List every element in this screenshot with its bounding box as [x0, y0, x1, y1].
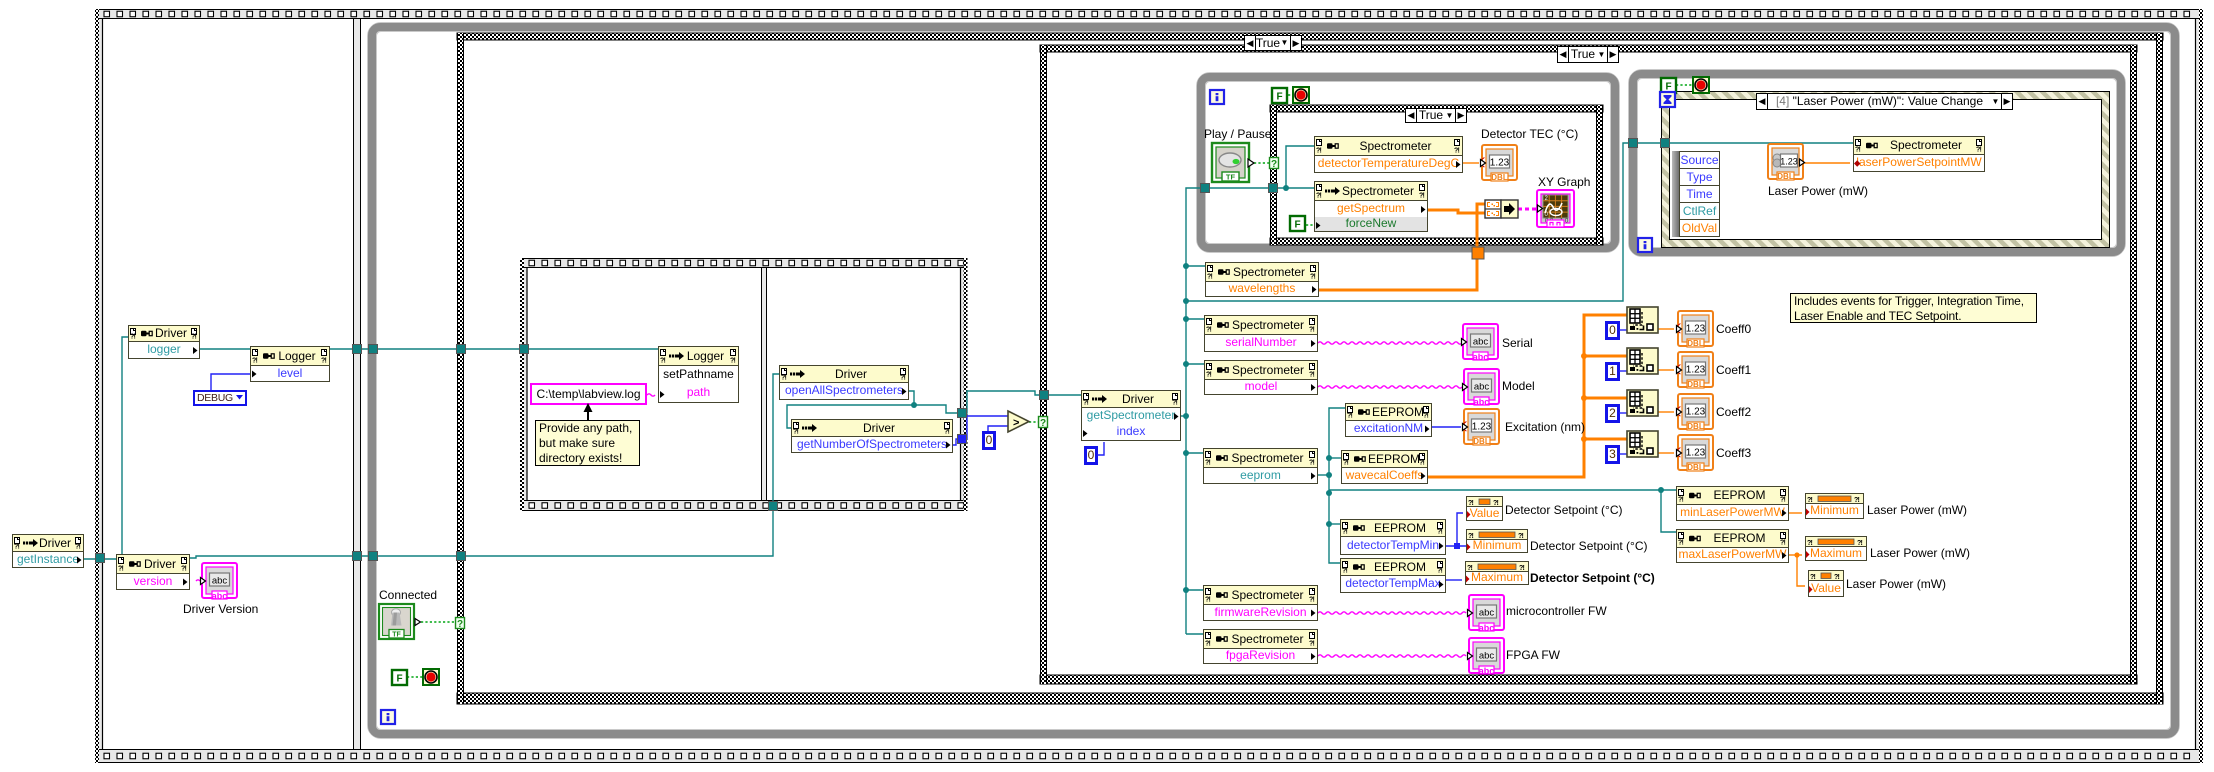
wire: array branch to Index Array 2: [1584, 397, 1627, 400]
wire: detectorTempMax to Maximum: [1446, 579, 1462, 581]
label Laser Power min: [1867, 503, 1967, 517]
wire: zero constant to greater-than: [988, 426, 1008, 431]
svg-text:DBL: DBL: [1687, 380, 1704, 389]
wire: index 3 constant to Index Array: [1619, 453, 1627, 455]
wire: count to greater-than: [966, 416, 1008, 439]
iteration terminal (acquire loop): [1210, 90, 1224, 104]
wire: Driver ref branch to tunnel: [914, 405, 962, 413]
svg-text:abc: abc: [1479, 666, 1495, 676]
wire: EEPROM ref to detectorTempMax: [1329, 475, 1340, 563]
case 2 selector label: [1557, 46, 1619, 63]
wire: serialNumber string to Serial: [1318, 342, 1462, 344]
iteration terminal (main loop): [381, 710, 395, 724]
label Detector TEC: [1481, 127, 1578, 141]
slider property: Laser Power Value (icons): [1809, 573, 1839, 593]
svg-text:1.23: 1.23: [1780, 157, 1798, 167]
property node: Spectrometer.firmwareRevision: [1203, 585, 1318, 621]
property node: EEPROM.wavecalCoeffs: [1341, 450, 1428, 484]
wire: EEPROM ref to maxLaserPowerMW: [1661, 490, 1676, 532]
svg-text:0.0: 0.0: [1545, 219, 1554, 225]
numeric indicator Coeff3: [1677, 435, 1714, 472]
label Coeff1: [1716, 363, 1751, 377]
case 2 selector terminal: [1039, 417, 1048, 430]
XY Graph indicator: [1537, 190, 1574, 227]
slider property: Laser Power Maximum: [1805, 536, 1867, 561]
wire: Spectrometer ref into acquire loop: [1209, 187, 1286, 189]
tunnel: Logger ref through divider: [353, 345, 362, 354]
wire junctions (orange): [1581, 353, 1800, 558]
label Laser Power value: [1846, 577, 1946, 591]
property node: Spectrometer.firmwareRevision (icons): [1205, 589, 1211, 604]
numeric constant 0 (compare): [982, 431, 996, 450]
case structure 2 (found True) top border: [1040, 45, 2137, 52]
case 1 selector terminal: [456, 618, 465, 631]
property node: Spectrometer.fpgaRevision (icons): [1205, 633, 1211, 648]
invoke node: Driver.getSpectrometer (icons): [1083, 394, 1089, 407]
svg-text:1.23: 1.23: [1686, 365, 1706, 376]
invoke node: Driver getInstance: [12, 534, 84, 568]
invoke node: Driver.getNumberOfSpectrometers (icons): [793, 423, 799, 436]
case structure 1 (connected True) left border: [458, 33, 464, 704]
wire: Spectrometer ref output: [1181, 415, 1186, 417]
inner sequence frame divider: [762, 268, 767, 500]
invoke node: Spectrometer.getSpectrum: [1314, 181, 1428, 232]
case 3 selector terminal: [1270, 158, 1279, 171]
greater-than function: [1008, 411, 1029, 432]
property node: Spectrometer.eeprom: [1203, 448, 1318, 484]
property node: Driver.logger: [128, 325, 200, 359]
Connected toggle control: [379, 604, 421, 639]
string indicator Model: [1463, 369, 1500, 407]
invoke node: Driver.getNumberOfSpectrometers: [791, 419, 953, 453]
svg-text:abc: abc: [1479, 608, 1495, 619]
property node: detectorTemperatureDegC (icons): [1316, 140, 1322, 155]
tunnel: Driver ref into loop: [369, 552, 378, 561]
Index Array function 3: [1627, 431, 1658, 457]
wire: ref to eeprom node: [1186, 452, 1203, 454]
wire: Index Array 0 to Coeff0 indicator: [1658, 328, 1674, 330]
property node: EEPROM.minLaserPowerMW (icons): [1678, 490, 1684, 504]
label Laser Power max: [1870, 546, 1970, 560]
slider property: Detector Setpoint Maximum: [1465, 561, 1529, 585]
iteration terminal (event loop): [1638, 238, 1652, 252]
wire: detector temperature to indicator: [1463, 162, 1479, 164]
svg-text:1.23: 1.23: [1686, 407, 1706, 418]
boolean F constant forceNew: [1290, 216, 1305, 231]
wire: ref to serialNumber node: [1186, 318, 1204, 320]
wire: EEPROM ref to wavecalCoeffs: [1329, 457, 1341, 459]
invoke node: Logger.setPathname (icons): [660, 350, 666, 365]
wire junctions (teal): [911, 185, 1664, 593]
Play/Pause toggle control: [1212, 143, 1254, 182]
wire: Driver ref to openAllSpectrometers: [190, 374, 779, 558]
inner sequence bottom border (film strip): [520, 501, 967, 511]
svg-text:TF: TF: [392, 632, 401, 639]
case 3 selector label: [1405, 108, 1467, 123]
wire: greater-than to case selector: [1029, 421, 1040, 423]
flat sequence left border: [95, 9, 99, 763]
inner sequence top border (film strip): [520, 259, 967, 268]
numeric indicator Coeff2: [1677, 394, 1714, 431]
slider property: Detector Setpoint Minimum: [1466, 529, 1528, 553]
svg-text:0: 0: [1545, 212, 1549, 218]
wire: Play/Pause to case selector: [1254, 162, 1270, 164]
svg-text:F: F: [1665, 82, 1671, 93]
case structure 1 (connected True) right border: [2157, 33, 2163, 704]
case structure 3 (play True) left border: [1271, 105, 1277, 245]
case 1 selector label: [1244, 35, 1302, 51]
wire: Logger ref to level node: [200, 348, 250, 350]
label Coeff0: [1716, 322, 1751, 336]
svg-text:?: ?: [1271, 159, 1277, 170]
wire: F to stop (event loop): [1676, 84, 1693, 86]
svg-text:DBL: DBL: [1687, 463, 1704, 472]
inner sequence left border: [520, 258, 524, 511]
svg-text:abc: abc: [1473, 337, 1489, 348]
svg-text:1.23: 1.23: [1686, 448, 1706, 459]
wire: ref to laserPowerSetpointMW: [1638, 142, 1853, 144]
svg-text:?: ?: [457, 619, 463, 630]
numeric constant 0: [1605, 321, 1620, 340]
wire: F to forceNew: [1306, 224, 1314, 226]
invoke node: Spectrometer.getSpectrum (icons): [1316, 185, 1322, 200]
svg-text:2: 2: [1545, 196, 1549, 202]
slider property: Detector Setpoint Value (icons): [1467, 499, 1498, 518]
svg-text:abc: abc: [1479, 651, 1495, 662]
Index Array function 1: [1627, 348, 1658, 374]
svg-text:DBL: DBL: [1473, 437, 1490, 446]
case structure 3 (play True) bottom border: [1270, 238, 1603, 245]
property node: EEPROM.excitationNM (icons): [1347, 407, 1353, 420]
case structure 2 (found True) left border: [1041, 45, 1047, 684]
svg-text:F: F: [396, 674, 402, 685]
boolean F constant (event loop): [1661, 78, 1676, 93]
label Coeff2: [1716, 405, 1751, 419]
property node: EEPROM.excitationNM: [1345, 403, 1432, 437]
wire: detectorTempMin to Value: [1457, 513, 1463, 546]
wire: ref to detectorTemperatureDegC: [1286, 146, 1314, 188]
svg-text:DBL: DBL: [1777, 172, 1794, 181]
label XY Graph: [1538, 175, 1590, 189]
wire: index 2 constant to Index Array: [1619, 412, 1627, 414]
wire: excitationNM to indicator: [1432, 426, 1461, 428]
slider property: Detector Setpoint Value: [1466, 496, 1503, 521]
stop button (acquire loop): [1293, 87, 1309, 103]
tunnel: wavelengths array into loop: [1472, 247, 1484, 259]
wire: Index Array 1 to Coeff1 indicator: [1658, 369, 1674, 371]
string indicator Serial: [1462, 324, 1499, 362]
wire: Driver ref getInstance to version node: [84, 558, 116, 560]
numeric control Laser Power: [1768, 144, 1805, 181]
comment: includes events: [1790, 293, 2037, 323]
numeric constant 1: [1605, 362, 1620, 381]
wire: Spectrometer ref main vertical: [1186, 188, 1201, 634]
wire: ref to wavelengths node: [1186, 265, 1205, 267]
event data node: [1672, 150, 1720, 152]
boolean F constant (acquire): [1272, 88, 1287, 103]
svg-text:1.0: 1.0: [1560, 219, 1569, 225]
wire: Connected to case selector: [421, 621, 457, 623]
wire: wavelengths array to bundle: [1319, 204, 1485, 290]
tunnel: ref into event structure: [1661, 139, 1670, 148]
stop button (event loop): [1693, 77, 1709, 93]
wire: wavecalCoeffs array: [1428, 315, 1627, 477]
wire: array branch to Index Array 3: [1584, 438, 1627, 441]
property node: Spectrometer.model: [1204, 360, 1318, 395]
label microcontroller FW: [1506, 604, 1607, 618]
property node: Driver.version: [116, 554, 190, 590]
wire: ref to fpgaRevision node: [1186, 633, 1203, 635]
svg-text:?: ?: [1040, 418, 1046, 429]
invoke node: Driver.openAllSpectrometers: [779, 365, 909, 400]
wire: F to stop button (acquire loop): [1288, 94, 1294, 96]
svg-text:abc: abc: [1474, 397, 1490, 407]
numeric constant 2: [1605, 404, 1620, 423]
wire: ref to firmwareRevision node: [1186, 589, 1203, 591]
svg-text:abc: abc: [1474, 382, 1490, 393]
wire: ref to getSpectrum: [1286, 187, 1314, 189]
tunnel: Driver ref into case 2: [1040, 391, 1049, 400]
property node: EEPROM.maxLaserPowerMW (icons): [1678, 533, 1684, 547]
tunnel: Logger ref into case 1: [457, 345, 466, 354]
label Serial: [1502, 336, 1533, 350]
property node: Spectrometer.model (icons): [1206, 364, 1212, 379]
numeric indicator Coeff1: [1677, 352, 1714, 389]
wire junction (blue): [1454, 543, 1460, 549]
tunnel: Driver ref into sequence: [96, 554, 105, 563]
wire: EEPROM ref to minLaserPowerMW: [1329, 489, 1676, 491]
slider property: Laser Power Maximum (icons): [1806, 539, 1862, 558]
property node: EEPROM.detectorTempMin: [1340, 519, 1446, 555]
wire: fpgaRevision string to FPGA FW: [1318, 655, 1466, 657]
while loop (events): [1633, 74, 2121, 252]
invoke node: Driver.getSpectrometer: [1081, 390, 1181, 441]
wire: Index Array 2 to Coeff2 indicator: [1658, 411, 1674, 413]
string indicator Driver Version: [201, 563, 238, 601]
flat sequence right border: [2199, 9, 2203, 763]
numeric constant 3: [1605, 445, 1620, 464]
string indicator microcontroller FW: [1468, 595, 1505, 633]
property node: EEPROM.detectorTempMin (icons): [1342, 523, 1348, 536]
property node: EEPROM.minLaserPowerMW: [1676, 486, 1789, 521]
tunnel: Driver ref out of sequence: [958, 409, 967, 418]
label Connected: [379, 588, 437, 602]
flat sequence bottom border (film strip): [95, 750, 2203, 763]
tunnel: Spectrometer ref into acquire loop: [1201, 184, 1210, 193]
wire: Logger ref to setPathname: [330, 348, 658, 350]
invoke node: Driver.openAllSpectrometers (icons): [781, 369, 787, 382]
slider property: Detector Setpoint Minimum (icons): [1467, 532, 1523, 551]
wire: DEBUG enum to level input: [211, 374, 250, 390]
enum constant DEBUG: [193, 390, 247, 406]
svg-text:1.23: 1.23: [1490, 158, 1510, 169]
wire: Driver ref to getSpectrometer node: [966, 391, 1081, 413]
wire: ref to event loop: [1186, 143, 1629, 301]
property node: laserPowerSetpointMW: [1853, 136, 1985, 172]
label Driver Version: [183, 602, 258, 616]
wire: minLaserPowerMW to Minimum slider: [1789, 512, 1802, 514]
property node: EEPROM.wavecalCoeffs (icons): [1343, 454, 1349, 467]
property node: Spectrometer.serialNumber: [1204, 315, 1318, 352]
while loop (acquire): [1201, 77, 1615, 248]
flat sequence frame divider: [354, 19, 361, 749]
case structure 2 (found True) right border: [2131, 45, 2137, 684]
wire: spectrometer count to tunnel: [953, 439, 960, 445]
svg-text:TF: TF: [1226, 173, 1236, 182]
tunnel: count out of sequence: [958, 435, 967, 444]
property node: Driver.version (icons): [118, 558, 124, 573]
inner sequence right border: [964, 258, 968, 511]
property node: Logger.level: [250, 346, 330, 382]
invoke node: Logger.setPathname: [658, 346, 739, 403]
case structure 3 (play True) right border: [1597, 105, 1603, 245]
wire: maxLaserPowerMW to Maximum slider: [1789, 554, 1802, 556]
wire: detectorTempMin to Minimum: [1446, 545, 1466, 547]
property node: EEPROM.detectorTempMax (icons): [1342, 562, 1348, 575]
event timeout terminal: [1660, 92, 1675, 107]
wire: bundled XY data to XY Graph: [1518, 208, 1537, 211]
case structure 1 (connected True) bottom border: [457, 693, 2163, 704]
svg-text:abc: abc: [212, 576, 228, 587]
slider property: Laser Power Minimum (icons): [1806, 496, 1859, 516]
label Laser Power control: [1768, 184, 1868, 198]
comment: provide any path: [535, 420, 640, 466]
wire: index 0 constant to Index Array: [1619, 329, 1627, 331]
slider property: Laser Power Value: [1808, 570, 1844, 597]
wire: path constant to setPathname: [647, 394, 655, 396]
svg-text:DBL: DBL: [1687, 339, 1704, 348]
case structure 3 (play True) top border: [1270, 105, 1603, 112]
numeric constant 0 (index): [1084, 446, 1098, 465]
svg-text:DBL: DBL: [1687, 422, 1704, 431]
Index Array function 2: [1627, 390, 1658, 416]
property node: laserPowerSetpointMW (icons): [1855, 140, 1861, 154]
slider property: Detector Setpoint Maximum (icons): [1466, 564, 1524, 583]
svg-text:abc: abc: [1479, 623, 1495, 633]
label FPGA FW: [1506, 648, 1560, 662]
wire: Laser Power control to laserPowerSetpointMW: [1804, 162, 1850, 164]
tunnel: Logger ref into loop: [369, 345, 378, 354]
stop button terminal (frame): [423, 669, 439, 685]
svg-text:1.23: 1.23: [1472, 422, 1492, 433]
numeric indicator Detector TEC: [1481, 145, 1518, 182]
svg-text:1.23: 1.23: [1686, 324, 1706, 335]
wire: ref to model node: [1186, 363, 1204, 365]
property node: Spectrometer.serialNumber (icons): [1206, 319, 1212, 334]
property node: Spectrometer.wavelengths (icons): [1207, 266, 1213, 281]
numeric indicator Excitation nm: [1463, 409, 1500, 446]
label Model: [1502, 379, 1535, 393]
invoke node: Driver getInstance (icons): [14, 538, 20, 551]
label Detector Setpoint 2: [1530, 539, 1648, 553]
wire: Index Array 3 to Coeff3 indicator: [1658, 452, 1674, 454]
tunnel: Driver ref through divider: [353, 552, 362, 561]
string indicator FPGA FW: [1468, 638, 1505, 676]
Index Array function 0: [1627, 307, 1658, 333]
tunnel: Logger ref into inner sequence: [520, 345, 529, 354]
property node: EEPROM.detectorTempMax: [1340, 558, 1446, 593]
wire: EEPROM ref to excitationNM: [1329, 408, 1345, 475]
wire: model string to Model: [1318, 386, 1462, 388]
svg-text:>: >: [1013, 417, 1019, 429]
wire: EEPROM ref to detectorTempMin: [1329, 523, 1340, 525]
boolean F constant (frame): [392, 670, 407, 685]
tunnel: ref into case 3: [1269, 184, 1278, 193]
wire: firmwareRevision string to microcontroller FW: [1318, 612, 1466, 614]
wire: max laser power to Value slider: [1797, 555, 1805, 586]
wire: F to stop (frame): [407, 676, 423, 678]
property node: Logger.level (icons): [252, 350, 258, 365]
bundle function: [1485, 200, 1518, 218]
svg-text:abc: abc: [212, 591, 228, 601]
property node: Driver.logger (icons): [130, 329, 136, 341]
property node: Spectrometer.eeprom (icons): [1205, 452, 1211, 467]
case structure 2 (found True) bottom border: [1040, 675, 2137, 684]
case structure 1 (connected True) top border: [457, 33, 2163, 40]
label Excitation nm: [1505, 420, 1585, 434]
svg-text:F: F: [1276, 92, 1282, 103]
property node: EEPROM.maxLaserPowerMW: [1676, 529, 1789, 563]
slider property: Laser Power Minimum: [1805, 493, 1864, 519]
property node: detectorTemperatureDegC: [1314, 136, 1463, 173]
event structure border: [1662, 92, 2110, 248]
string constant path: [530, 383, 647, 405]
numeric indicator Coeff0: [1677, 311, 1714, 348]
wire: array branch to Index Array 1: [1584, 355, 1627, 358]
flat sequence top border (film strip): [95, 10, 2203, 19]
tunnel: Driver ref into frame 2: [769, 502, 778, 511]
property node: Spectrometer.fpgaRevision: [1203, 629, 1318, 664]
svg-text:DBL: DBL: [1491, 173, 1508, 182]
wire: Driver ref openAll to getNumberOfSpectrometers: [787, 391, 914, 428]
wire: getSpectrum array to bundle: [1428, 210, 1485, 213]
svg-text:abc: abc: [1473, 352, 1489, 362]
while loop (main): [372, 27, 2175, 734]
label Detector Setpoint 1: [1505, 503, 1623, 517]
wire: Driver ref up to logger property node: [122, 337, 128, 554]
label Detector Setpoint 3: [1530, 571, 1655, 585]
wire: index 0 to getSpectrometer: [1097, 442, 1104, 455]
label Coeff3: [1716, 446, 1751, 460]
wire: EEPROM ref output: [1318, 474, 1329, 476]
label Play / Pause: [1204, 127, 1271, 141]
tunnel: Driver ref into case 1: [457, 552, 466, 561]
event selector label: [1756, 93, 2013, 110]
tunnel: ref into event loop: [1629, 139, 1638, 148]
property node: Spectrometer.wavelengths: [1205, 262, 1319, 297]
svg-text:F: F: [1294, 220, 1300, 231]
wire: index 1 constant to Index Array: [1619, 370, 1627, 372]
wire: version string to Driver Version: [196, 580, 200, 581]
